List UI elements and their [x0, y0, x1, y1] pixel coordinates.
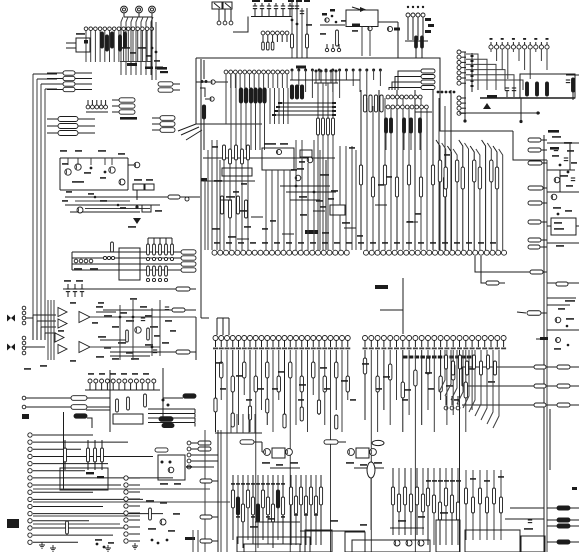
output resistor R42: [110, 350, 196, 354]
amplifier sub Q9: [155, 448, 192, 485]
wire field below row2 left: [216, 350, 348, 552]
staircase wires J7: [466, 54, 523, 90]
wire box edge: [64, 410, 111, 490]
ferrite bar FB2: [120, 117, 137, 120]
dense bottom cluster B2: [289, 475, 322, 545]
labels inside U1 area: [212, 146, 450, 239]
component cluster near P1c: [146, 14, 168, 81]
connector J6 pins: [405, 6, 428, 41]
resistor R60 dark: [74, 414, 92, 428]
resistor bank RN16: [60, 440, 108, 490]
resistor bank RN2 vertical: [101, 32, 147, 54]
ferrite FB3 right edge: [566, 75, 579, 100]
resistor stack RN5: [47, 117, 95, 136]
block header dark bars: [113, 414, 174, 428]
regulator U8 loop: [306, 7, 400, 58]
IC U9 box: [520, 74, 575, 98]
wire left boundary: [201, 59, 209, 318]
amp subcircuit A2: [324, 440, 384, 468]
label PWR: [548, 130, 559, 133]
input resistors R44 R45: [22, 396, 110, 410]
dense bottom cluster B4: [426, 468, 461, 545]
wire bundle from P1: [121, 17, 153, 75]
audio input JK2: [7, 336, 26, 355]
connector J16 column: [124, 476, 140, 543]
connector P1 top-left pins: [121, 6, 156, 17]
op-amp U2B: [58, 319, 67, 328]
wire to J4: [233, 17, 248, 33]
stub labels below row2: [213, 341, 506, 350]
output resistor R40: [63, 287, 196, 291]
wire horizontal bus mid: [178, 124, 262, 140]
pin header J11: [386, 95, 432, 112]
component column D3: [471, 53, 474, 92]
vertical resistors RV1: [116, 394, 170, 412]
cluster BR1: [465, 470, 521, 552]
left vertical wire bundle: [33, 74, 57, 340]
resistor bank RN6 dark: [226, 74, 266, 150]
ground G4: [132, 543, 138, 549]
driver stage Q6: [62, 191, 200, 228]
pin header J9 row: [224, 70, 289, 124]
connector J7 left column: [457, 50, 466, 85]
wire top-right boundary: [435, 58, 547, 160]
wire bus bottom-left: [33, 489, 230, 524]
wire bus y158: [201, 158, 335, 181]
connector pins small: [444, 396, 460, 410]
wire verticals below: [110, 317, 196, 432]
right cluster RC2: [536, 282, 579, 350]
cluster BR2: [521, 520, 545, 552]
resistor bank RN9b: [438, 160, 498, 189]
ground G3: [105, 545, 111, 551]
pin header J3: [86, 100, 108, 112]
pin header J2: [84, 27, 153, 62]
amp subcircuit A1: [240, 440, 300, 468]
resistor stack RN3: [112, 98, 135, 114]
stub labels above row1: [214, 242, 496, 244]
box outline BX3: [436, 520, 460, 552]
output resistor R41: [103, 308, 196, 312]
transistor Q3 junction cluster: [196, 60, 228, 150]
capacitor group C30: [64, 280, 84, 297]
resistor R50 box: [103, 242, 140, 280]
pin header J13: [85, 373, 160, 390]
pin header J5: [261, 31, 289, 50]
right resistor taps: [462, 365, 579, 544]
transistor Q1 stage: [320, 9, 346, 52]
op-amp U3B: [58, 345, 67, 354]
bus crossing wires: [272, 102, 336, 116]
diode bank D4: [385, 118, 422, 150]
connector J7 lower pins: [457, 52, 540, 123]
ground G2: [50, 545, 56, 551]
stem above row2 mid: [375, 278, 403, 334]
hanging resistors RN13: [146, 238, 173, 282]
crystal X1 bar: [296, 66, 306, 69]
wire field below row2 right: [365, 350, 472, 552]
IC U10 cluster: [262, 143, 294, 250]
discrete cluster Q8: [66, 500, 198, 552]
resistor stack RN10: [389, 69, 435, 90]
box outline BX1: [237, 530, 332, 552]
capacitor row C10-C15: [251, 0, 292, 17]
IC U4 pin row: [213, 336, 506, 341]
resistor bank RN15: [363, 358, 467, 398]
component labels mid: [215, 362, 495, 401]
pin row J10 filled: [314, 70, 338, 251]
oval R71: [367, 462, 375, 530]
resistor cluster RN8: [208, 140, 252, 250]
discrete cluster Q4 area: [280, 140, 356, 250]
wire field to pin row: [361, 90, 451, 250]
diode bank D2: [415, 18, 434, 58]
label LBOX: [7, 519, 19, 528]
feedback network RC: [90, 298, 196, 360]
pin row J12 filled: [290, 69, 382, 99]
resistor bank RN7: [317, 118, 335, 135]
resistor bank RN14: [214, 362, 350, 429]
stems above row2: [217, 318, 229, 335]
op-amp U3A: [55, 333, 64, 342]
right cluster RC1: [528, 136, 579, 249]
bus y433: [215, 414, 262, 433]
box outline BX2: [345, 532, 430, 552]
pin header J14: [74, 259, 98, 270]
wire comb: [148, 409, 195, 427]
wire staircase to right column: [475, 256, 547, 315]
bus bottom centre: [250, 512, 448, 531]
IC U1 pin row: [212, 250, 507, 255]
bias labels: [24, 302, 76, 370]
wire field right of IC: [436, 140, 503, 250]
ferrite FB4: [163, 394, 196, 398]
resistor bank RN9: [359, 91, 455, 197]
bus resistors RN12: [72, 250, 196, 272]
wire right rail: [544, 135, 547, 552]
audio input JK1: [7, 306, 26, 325]
IC U7 small box: [66, 33, 90, 52]
resistor stack RN4: [158, 82, 180, 92]
wires from J15: [33, 435, 173, 542]
filter columns C16: [288, 0, 310, 58]
dense bottom cluster B1: [231, 475, 285, 548]
test point TP1 triangle: [483, 103, 491, 109]
ground G1: [39, 539, 114, 548]
resistor stack RN1: [47, 71, 92, 92]
op-amp U2A: [58, 308, 67, 317]
wire input fan: [26, 300, 56, 360]
hook wires right: [439, 350, 499, 428]
label band under row2 right: [403, 356, 471, 359]
dense bottom cluster B3: [390, 468, 425, 546]
wire power rail: [480, 95, 575, 98]
resistor bank RN15b: [445, 355, 497, 375]
connector J4 top edge: [212, 2, 233, 25]
amplifier Q5 circuit: [60, 150, 128, 190]
connector J17 column: [187, 441, 218, 469]
edge resistors RE: [200, 479, 218, 543]
connector J8 top pins: [489, 38, 549, 79]
capacitor C20 group: [505, 88, 516, 97]
op-amp U2C: [79, 312, 90, 323]
connector J15 column: [28, 433, 32, 545]
resistor stack RN4b: [152, 116, 175, 133]
IC U11 small boxes: [128, 162, 154, 200]
wire main bus: [196, 58, 440, 124]
ferrite bars FB1: [120, 62, 163, 70]
op-amp U3C: [79, 342, 90, 353]
wire left rail bottom: [205, 430, 221, 552]
label TOP: [22, 414, 29, 419]
resistor bank RN11: [290, 85, 383, 112]
